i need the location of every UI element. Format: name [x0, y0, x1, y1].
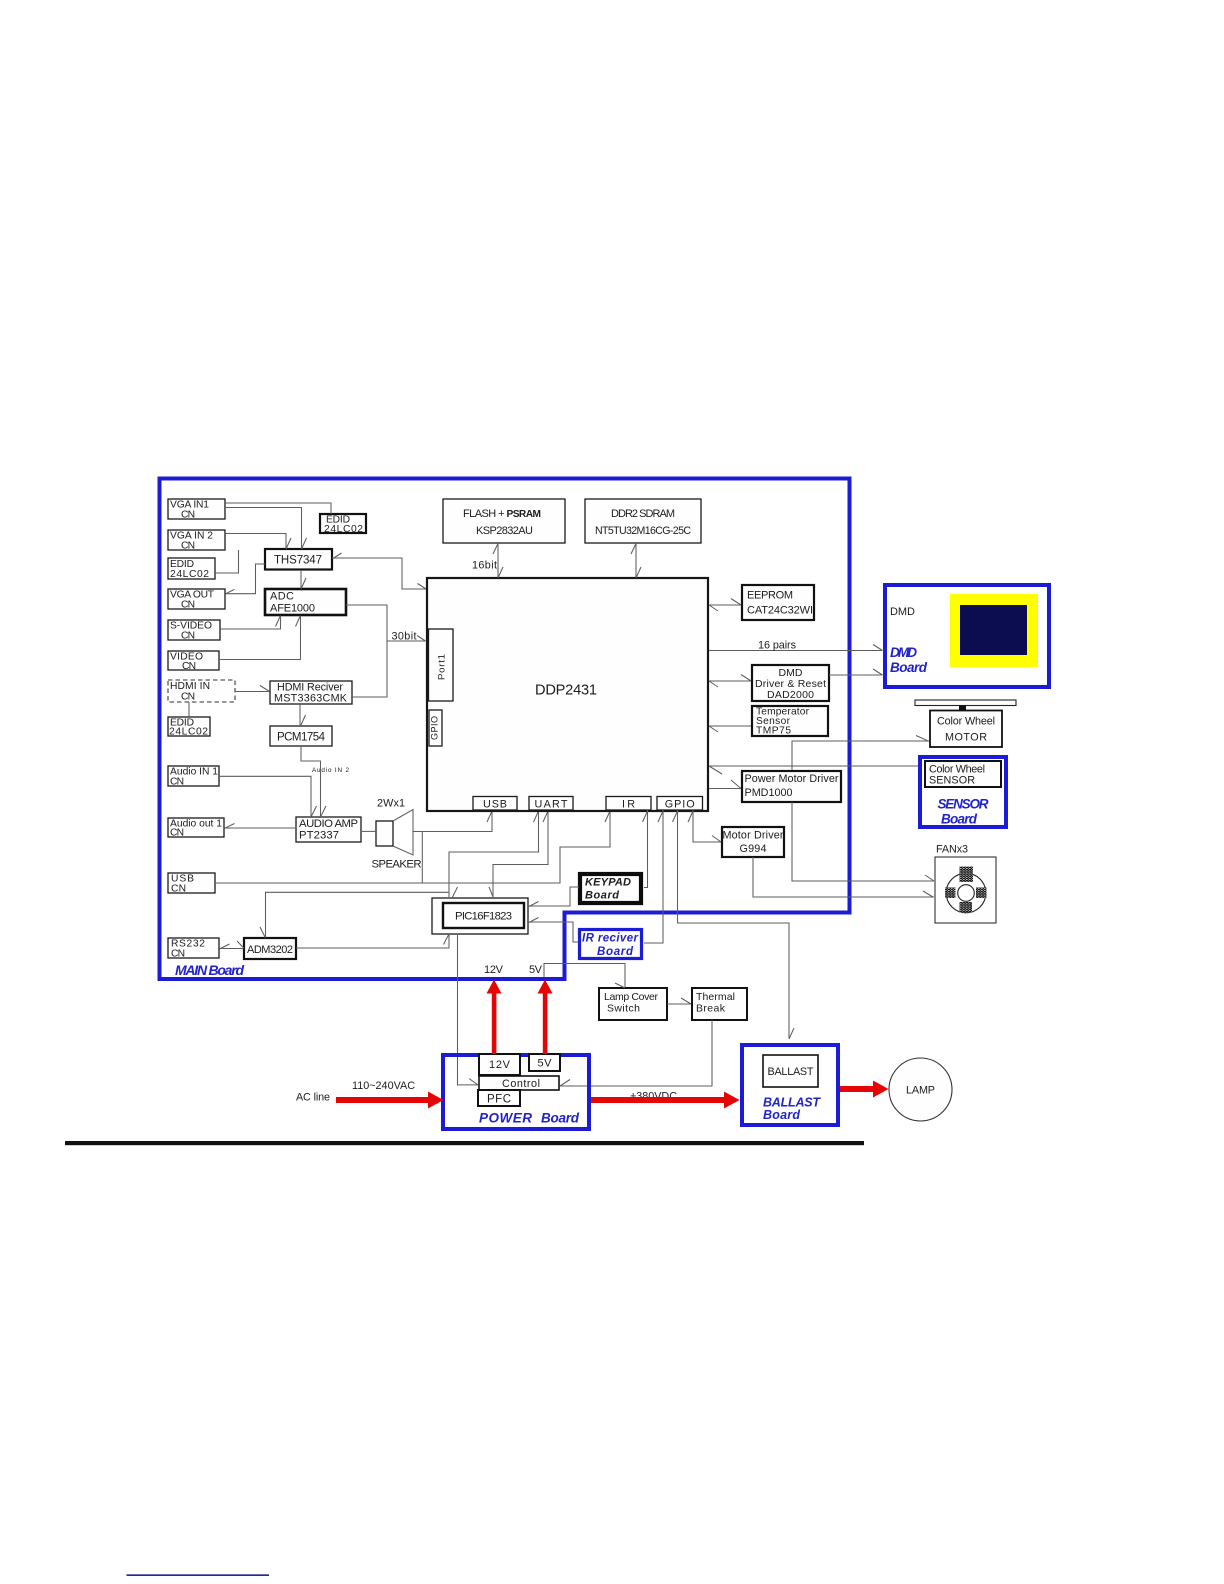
wire DDP2431 to EEPROM: [709, 604, 741, 606]
wire 5V rail to Lamp Cover Switch: [544, 964, 625, 988]
arrowhead into ADC bottom: [276, 616, 281, 627]
svg-text:CN: CN: [181, 691, 195, 702]
svg-text:HDMI Reciver: HDMI Reciver: [277, 681, 343, 693]
svg-text:Color Wheel: Color Wheel: [937, 716, 995, 728]
red arrow AC line: [336, 1092, 444, 1109]
svg-text:ADC: ADC: [270, 591, 294, 603]
arrowhead into THS7347 top: [302, 538, 307, 549]
arrowhead into IR port: [605, 811, 610, 822]
svg-text:PT2337: PT2337: [299, 830, 339, 842]
svg-text:FANx3: FANx3: [936, 844, 968, 856]
wire DDP2431 to PMD1000: [709, 788, 741, 790]
wire AUDIO AMP to speaker: [361, 830, 376, 832]
svg-text:G994: G994: [740, 843, 767, 855]
wire EDID to VGA IN 2: [215, 550, 239, 573]
chip Power Motor Driver PMD1000: [742, 771, 841, 802]
wire GPIO to IR reciver Board: [644, 810, 663, 943]
svg-text:CN: CN: [181, 509, 195, 520]
module Control: [479, 1076, 559, 1090]
module PFC: [478, 1090, 520, 1106]
svg-text:Board: Board: [585, 890, 619, 902]
svg-text:CN: CN: [170, 776, 184, 787]
arrowhead into PIC top (1): [452, 887, 458, 898]
arrowhead into VGA OUT: [226, 589, 235, 594]
arrowhead into HDMI Reciver left: [260, 686, 270, 692]
connector VIDEO CN: [168, 651, 219, 672]
chip EEPROM CAT24C32WI: [742, 585, 814, 620]
memory DDR2 SDRAM NT5TU32M16CG-25C: [585, 499, 701, 543]
svg-text:CN: CN: [181, 540, 195, 551]
board SENSOR Board: [920, 757, 1006, 827]
module BALLAST: [763, 1055, 818, 1087]
fan box: [935, 857, 996, 923]
eeprom EDID 24LC02 (VGA IN 2): [168, 558, 215, 580]
port GPIO (bottom): [657, 797, 703, 811]
arrowhead into PMD1000 left: [731, 780, 741, 789]
svg-text:FLASH + PSRAM: FLASH + PSRAM: [463, 508, 541, 520]
svg-text:Port1: Port1: [437, 654, 448, 680]
wire USB CN to IR port: [215, 811, 610, 883]
arrowhead into DDP2431 right (DAD): [709, 681, 718, 687]
connector VGA IN 2 CN: [168, 530, 225, 551]
arrowhead into Color Wheel MOTOR left: [916, 736, 929, 742]
wire FLASH to DDP2431 16bit: [497, 543, 499, 577]
wire Lamp Cover Switch to Thermal Break: [667, 1003, 691, 1005]
chip ADM3202: [244, 938, 296, 959]
arrowhead into Control left: [469, 1079, 478, 1085]
svg-text:EEPROM: EEPROM: [747, 590, 793, 602]
svg-text:GPIO: GPIO: [665, 798, 695, 810]
sensor Temperator Sensor TMP75: [752, 706, 828, 737]
arrowhead into DDP2431 top: [498, 567, 503, 578]
wire VGA IN1 to EDID: [225, 503, 331, 514]
arrowhead into G994 left: [712, 836, 721, 843]
svg-text:2Wx1: 2Wx1: [377, 798, 405, 810]
svg-text:DDR2 SDRAM: DDR2 SDRAM: [611, 508, 675, 520]
wire PIC16F1823 to IR reciver Board: [529, 922, 578, 942]
svg-text:SENSOR: SENSOR: [929, 775, 975, 787]
eeprom EDID 24LC02 (VGA IN1): [320, 514, 366, 535]
svg-text:TMP75: TMP75: [756, 726, 791, 737]
wire PMD1000 to Color Wheel MOTOR: [792, 741, 929, 770]
arrowhead into DDP2431 top: [636, 567, 641, 578]
wire THS7347 to VGA OUT: [226, 564, 265, 594]
svg-text:Control: Control: [502, 1078, 540, 1090]
svg-text:Board: Board: [541, 1111, 580, 1126]
wire junction down to USB CN line: [421, 832, 423, 884]
wire HDMI Reciver to 30bit node: [352, 641, 387, 697]
svg-text:DMD: DMD: [890, 645, 917, 660]
chip Motor Driver G994: [722, 827, 784, 857]
svg-text:CN: CN: [171, 948, 185, 959]
wire VIDEO to ADC: [219, 616, 301, 660]
motor Color Wheel MOTOR: [930, 711, 1002, 748]
arrowhead into PIC top (2): [489, 887, 494, 898]
wire ADC to Port1 30bit: [346, 605, 426, 641]
wire UART to PIC16F1823 (1): [449, 810, 539, 897]
svg-text:MST3363CMK: MST3363CMK: [274, 693, 348, 705]
arrowhead into DDR2 bottom: [631, 544, 636, 555]
connector Audio IN 1 CN: [168, 766, 219, 787]
svg-text:SPEAKER: SPEAKER: [372, 859, 422, 871]
svg-text:AFE1000: AFE1000: [270, 603, 315, 615]
wire DDR2 to DDP2431: [635, 543, 637, 577]
wire DDP2431 to DAD2000: [709, 680, 751, 682]
svg-text:USB: USB: [483, 798, 507, 810]
svg-text:BALLAST: BALLAST: [768, 1066, 814, 1078]
chip THS7347: [265, 549, 332, 570]
arrowhead into Control right: [560, 1080, 570, 1087]
wire G994 to FAN: [753, 857, 934, 897]
svg-text:Switch: Switch: [607, 1003, 640, 1015]
svg-text:PIC16F1823: PIC16F1823: [455, 911, 512, 923]
wire Thermal Break to Control: [560, 1020, 712, 1086]
arrowhead into DMD Board (DAD): [873, 669, 883, 675]
connector VGA IN1 CN: [168, 499, 225, 520]
chip DMD Driver & Reset DAD2000: [752, 665, 829, 701]
svg-text:KEYPAD: KEYPAD: [585, 877, 631, 889]
svg-text:110~240VAC: 110~240VAC: [352, 1080, 415, 1092]
arrowhead into DAD2000 left: [741, 675, 751, 682]
svg-text:GPIO: GPIO: [430, 716, 440, 740]
wire DDP2431 to DMD Board 16 pairs: [709, 650, 882, 652]
connector RS232 CN: [168, 938, 219, 959]
red arrow 12V: [487, 980, 502, 1055]
wire THS7347 to ADC: [300, 570, 302, 588]
arrowhead into DMD Board (16 pairs): [873, 645, 883, 651]
sensor Color Wheel SENSOR: [925, 761, 1001, 787]
wire IR port to KEYPAD Board: [644, 810, 648, 888]
wire HDMI Reciver to PCM1754: [299, 704, 301, 725]
connector HDMI IN CN (dashed): [168, 680, 235, 702]
svg-text:Thermal: Thermal: [696, 991, 735, 1003]
svg-text:Lamp Cover: Lamp Cover: [604, 991, 659, 1003]
svg-text:Audio IN 2: Audio IN 2: [312, 767, 349, 774]
chip AUDIO AMP PT2337: [296, 817, 361, 842]
svg-text:Board: Board: [597, 946, 634, 958]
board IR reciver Board: [580, 930, 642, 959]
chip PIC16F1823: [432, 898, 528, 934]
wire DDP2431 to TMP75: [709, 725, 751, 727]
arrowhead into THS7347 right: [333, 553, 342, 559]
svg-text:CN: CN: [170, 828, 184, 839]
wire DAD2000 to DMD Board: [829, 674, 882, 676]
board POWER Board: [443, 1055, 589, 1129]
svg-text:MAIN Board: MAIN Board: [175, 962, 244, 978]
arrowhead into USB port: [487, 811, 492, 822]
svg-text:AUDIO AMP: AUDIO AMP: [299, 818, 358, 830]
svg-text:DAD2000: DAD2000: [767, 689, 814, 701]
lamp LAMP: [889, 1058, 952, 1121]
svg-text:CN: CN: [181, 630, 195, 641]
red arrow +380VDC: [591, 1092, 740, 1109]
svg-text:Motor Driver: Motor Driver: [723, 830, 784, 842]
port Port1: [429, 629, 454, 701]
port UART: [529, 797, 573, 811]
speaker icon: [376, 810, 413, 856]
arrowhead into PIC bottom: [444, 934, 450, 945]
wire VGA IN1 to THS7347: [225, 508, 302, 549]
port IR: [606, 797, 651, 811]
MAIN Board outline: [160, 479, 850, 980]
separator line: [65, 1141, 864, 1145]
arrowhead into ADM3202 top: [260, 927, 266, 938]
wire ADM3202 to RS232: [220, 948, 243, 950]
wire VGA IN 2 to THS7347: [225, 534, 286, 549]
arrowhead into DDP2431 left: [418, 584, 427, 590]
svg-text:24LC02: 24LC02: [324, 524, 363, 535]
arrowhead below UART 2: [543, 811, 548, 822]
wire S-VIDEO to ADC: [220, 616, 281, 629]
arrowhead into DDP2431 left (30bit): [417, 636, 426, 642]
svg-text:Board: Board: [941, 812, 978, 827]
svg-text:Break: Break: [696, 1003, 726, 1015]
footer link underline: [127, 1574, 270, 1576]
svg-text:NT5TU32M16CG-25C: NT5TU32M16CG-25C: [595, 525, 691, 537]
arrowhead into THS7347 top: [286, 538, 291, 549]
port USB: [473, 797, 517, 811]
arrowhead into Audio out 1: [225, 824, 235, 829]
stand bar below DMD board: [915, 700, 1016, 706]
svg-text:MOTOR: MOTOR: [945, 732, 987, 744]
arrowhead into DDP2431 right (EEPROM): [709, 605, 718, 611]
wire GPIO to BALLAST Board: [678, 810, 790, 1038]
arrowhead into FAN (G994): [923, 891, 933, 897]
svg-text:SENSOR: SENSOR: [938, 797, 989, 812]
arrowhead into PIC right (keypad): [529, 902, 539, 907]
svg-text:30bit: 30bit: [392, 631, 417, 643]
svg-text:12V: 12V: [489, 1059, 511, 1071]
arrowhead below GPIO (G994 wire): [688, 811, 693, 822]
arrowhead into FAN (PMD): [925, 875, 934, 881]
arrowhead below GPIO (ballast wire): [673, 811, 678, 822]
red arrow 5V: [538, 980, 553, 1055]
svg-text:AC line: AC line: [296, 1092, 330, 1104]
arrowhead into AUDIO AMP top: [311, 806, 317, 817]
arrowhead into FLASH bottom: [493, 544, 498, 555]
red arrow BALLAST to LAMP: [840, 1081, 889, 1098]
module 12V: [479, 1054, 520, 1075]
board KEYPAD Board: [580, 874, 641, 903]
svg-text:POWER: POWER: [479, 1111, 532, 1126]
wire ADM3202 to PIC vertical: [266, 892, 450, 937]
arrowhead below IR port (KEYPAD wire): [643, 811, 648, 822]
board DMD Board: [885, 585, 1049, 687]
arrowhead into PCM1754 top: [301, 715, 306, 726]
arrowhead into ADC bottom: [296, 616, 301, 627]
connector Audio out 1 CN: [168, 818, 224, 839]
arrowhead into Lamp Cover Switch top: [615, 983, 625, 988]
memory FLASH + PSRAM KSP2832AU: [443, 499, 565, 543]
wire HDMI CN to HDMI Reciver: [235, 691, 269, 693]
svg-text:CN: CN: [182, 661, 196, 672]
svg-text:Power Motor Driver: Power Motor Driver: [745, 773, 839, 785]
wire AUDIO AMP to Audio out 1: [225, 827, 296, 829]
svg-text:KSP2832AU: KSP2832AU: [476, 525, 533, 537]
processor DDP2431: [427, 578, 708, 811]
breaker Thermal Break: [692, 988, 747, 1020]
connector USB CN: [168, 873, 215, 894]
svg-text:UART: UART: [535, 798, 568, 810]
svg-text:CN: CN: [181, 599, 195, 610]
chip HDMI Reciver MST3363CMK: [270, 681, 352, 705]
board BALLAST Board: [742, 1045, 838, 1125]
module 5V: [529, 1054, 560, 1071]
arrowhead below GPIO (IR board wire): [658, 811, 663, 822]
svg-text:CAT24C32WI: CAT24C32WI: [747, 605, 813, 617]
svg-text:IR: IR: [622, 798, 635, 810]
svg-text:PFC: PFC: [487, 1094, 511, 1106]
arrowhead into ADM3202 left: [237, 941, 244, 948]
stand post: [959, 706, 966, 712]
wire PMD1000 to FAN: [792, 802, 934, 881]
svg-text:5V: 5V: [529, 964, 543, 976]
wire PCM1754 to AUDIO AMP: [301, 746, 321, 816]
wire PIC16F1823 to Control: [458, 934, 479, 1085]
wire DDP2431 to Color Wheel SENSOR: [709, 765, 918, 767]
svg-text:IR reciver: IR reciver: [582, 933, 639, 945]
wire HDMI CN to EDID below: [188, 702, 190, 717]
switch Lamp Cover Switch: [599, 988, 667, 1020]
svg-text:DDP2431: DDP2431: [535, 683, 597, 699]
chip ADC AFE1000: [265, 589, 346, 615]
connector S-VIDEO CN: [168, 620, 220, 641]
wire GPIO to G994: [693, 810, 721, 842]
svg-text:12V: 12V: [484, 964, 504, 976]
wire THS7347 to DDP2431: [332, 558, 426, 589]
arrowhead into EEPROM left: [731, 599, 741, 606]
eeprom EDID 24LC02 (HDMI): [168, 717, 210, 738]
fan rotor ring: [945, 867, 987, 913]
arrowhead into ADC top: [301, 578, 306, 589]
svg-text:CN: CN: [171, 883, 186, 894]
port GPIO (left): [429, 710, 442, 746]
arrowhead into Thermal Break left: [681, 998, 691, 1004]
svg-text:DMD: DMD: [890, 606, 915, 618]
svg-text:ADM3202: ADM3202: [247, 944, 293, 956]
svg-text:Board: Board: [763, 1108, 800, 1122]
wire PIC16F1823 to KEYPAD Board: [529, 887, 579, 906]
arrowhead into DDP2431 right (TMP75): [709, 726, 718, 732]
svg-text:PMD1000: PMD1000: [745, 787, 793, 799]
svg-text:24LC02: 24LC02: [169, 727, 208, 738]
DMD chip yellow frame: [950, 594, 1038, 667]
arrowhead into DDP2431 right (SENSOR): [709, 766, 722, 774]
svg-text:LAMP: LAMP: [906, 1085, 935, 1097]
svg-text:PCM1754: PCM1754: [277, 732, 326, 744]
svg-text:16bit: 16bit: [472, 560, 497, 572]
arrowhead into AUDIO AMP top: [321, 806, 327, 817]
DMD chip die: [960, 605, 1027, 655]
wire speaker junction to USB port: [413, 811, 492, 832]
svg-text:Board: Board: [890, 660, 928, 675]
arrowhead below UART: [534, 811, 539, 822]
arrowhead into BALLAST Board top: [789, 1028, 794, 1039]
arrowhead into PIC right (IR): [529, 918, 539, 923]
svg-text:5V: 5V: [538, 1058, 553, 1070]
chip PCM1754: [270, 726, 332, 746]
svg-text:THS7347: THS7347: [274, 555, 322, 567]
svg-text:16 pairs: 16 pairs: [758, 640, 797, 652]
connector VGA OUT CN: [168, 589, 225, 610]
wire UART to PIC16F1823 (2): [493, 810, 548, 897]
svg-text:24LC02: 24LC02: [170, 569, 209, 580]
wire Audio IN 1 to AUDIO AMP: [219, 776, 311, 816]
wire ADM3202 to PIC bottom: [296, 935, 449, 948]
arrowhead into RS232: [220, 944, 230, 949]
